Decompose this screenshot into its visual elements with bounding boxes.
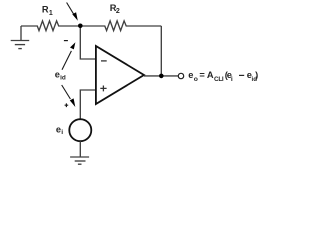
wire source to ground	[79, 141, 81, 157]
wire output	[144, 75, 178, 77]
svg-text:): )	[255, 70, 258, 80]
output junction dot	[159, 74, 164, 79]
minus polarity mark	[64, 40, 68, 42]
op-amp plus input mark	[100, 86, 106, 92]
op-amp minus input mark	[101, 60, 107, 62]
arrow e_id lower	[62, 85, 76, 107]
source e_i circle	[69, 119, 91, 141]
wire node to inverting input	[80, 26, 96, 59]
wire non-inverting input	[80, 90, 96, 119]
svg-text:CLI: CLI	[214, 76, 224, 83]
svg-text:A: A	[207, 70, 214, 80]
svg-text:e: e	[188, 70, 193, 80]
svg-text:2: 2	[116, 8, 120, 15]
ground (bottom)	[70, 157, 89, 164]
node junction dot	[78, 24, 83, 29]
svg-text:o: o	[194, 76, 198, 83]
svg-text:i: i	[61, 129, 63, 136]
svg-text:1: 1	[49, 10, 53, 17]
op-amp U1	[96, 46, 144, 104]
wire top rail with resistors	[21, 21, 161, 31]
svg-text:R: R	[42, 4, 49, 14]
svg-text:id: id	[60, 75, 66, 82]
arrow e_id upper	[62, 42, 75, 70]
plus polarity mark	[65, 103, 69, 107]
wire feedback vertical	[160, 26, 162, 76]
ground (top-left)	[11, 26, 30, 49]
output terminal circle	[178, 73, 183, 78]
arrow into node	[67, 3, 78, 21]
svg-text:i: i	[231, 76, 233, 83]
svg-text:=: =	[199, 70, 205, 80]
output equation text	[188, 70, 258, 83]
